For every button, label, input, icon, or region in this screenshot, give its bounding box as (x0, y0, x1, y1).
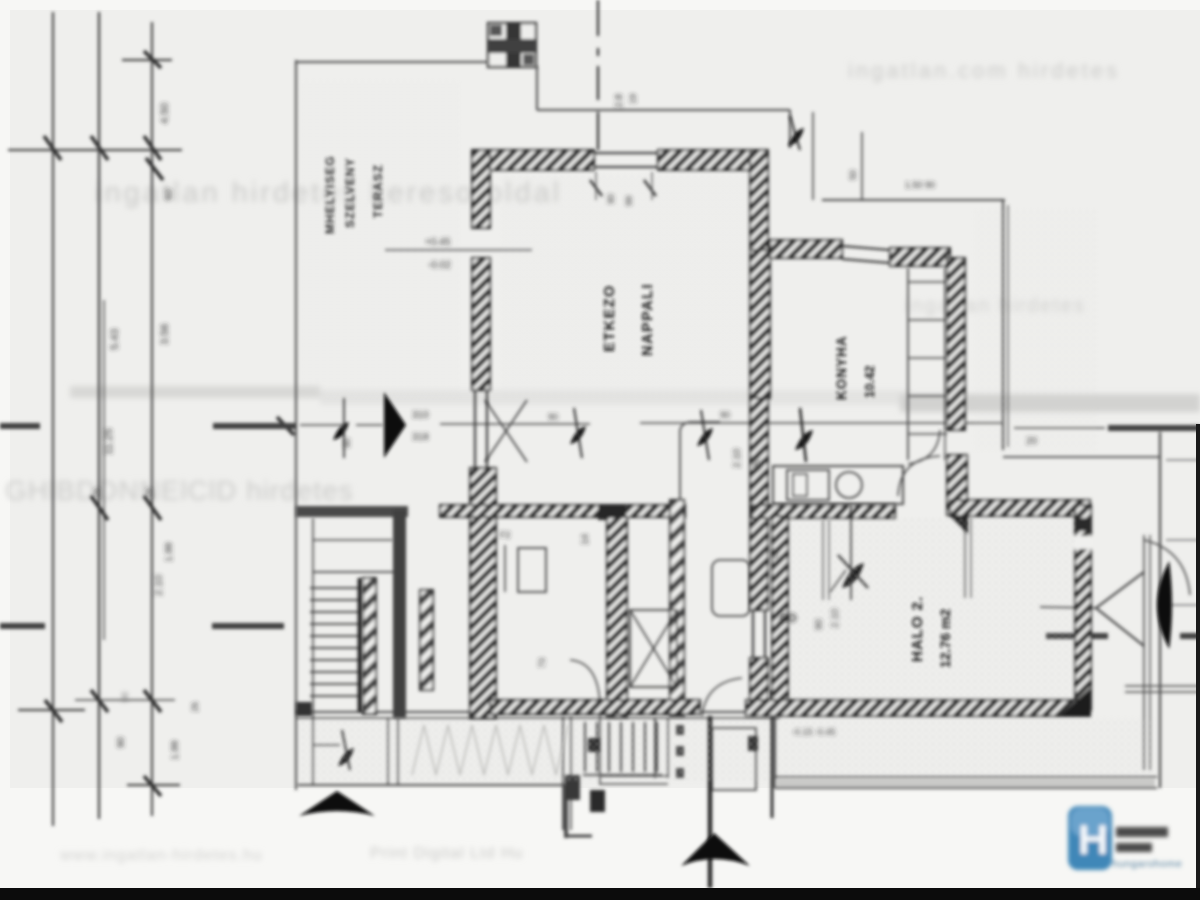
svg-text:12.76 m2: 12.76 m2 (937, 609, 953, 668)
svg-text:11.25: 11.25 (103, 428, 115, 455)
svg-text:19: 19 (628, 94, 638, 104)
svg-text:90: 90 (342, 438, 352, 448)
svg-text:1.99: 1.99 (170, 740, 181, 760)
svg-text:90: 90 (120, 692, 130, 702)
svg-text:ingatlan.com hirdetes: ingatlan.com hirdetes (848, 58, 1120, 83)
svg-text:14: 14 (580, 533, 591, 545)
svg-text:GHlBDDNNElClD hirdetes: GHlBDDNNElClD hirdetes (5, 475, 354, 506)
svg-text:26: 26 (144, 488, 154, 498)
svg-text:60: 60 (164, 188, 175, 200)
svg-text:TERASZ: TERASZ (371, 164, 385, 218)
svg-text:14: 14 (770, 550, 780, 560)
svg-text:2.10: 2.10 (153, 575, 165, 596)
svg-text:KONYHA: KONYHA (834, 335, 849, 400)
svg-text:90: 90 (548, 412, 558, 422)
svg-text:1.50 90: 1.50 90 (905, 180, 935, 190)
svg-text:F2: F2 (500, 530, 511, 540)
svg-text:HALO 2.: HALO 2. (909, 596, 926, 662)
svg-text:10.42: 10.42 (862, 365, 877, 398)
svg-text:Print Digital Ltd Hu: Print Digital Ltd Hu (370, 845, 523, 862)
svg-text:2.10: 2.10 (732, 448, 743, 468)
svg-text:3.56: 3.56 (159, 324, 171, 345)
svg-text:90: 90 (752, 458, 763, 470)
svg-text:73: 73 (537, 658, 547, 668)
svg-text:ETKEZO: ETKEZO (602, 284, 618, 352)
svg-text:26: 26 (190, 702, 200, 712)
svg-text:90: 90 (720, 410, 730, 420)
svg-text:26: 26 (92, 488, 102, 498)
svg-text:90: 90 (116, 736, 127, 748)
svg-text:4.50: 4.50 (159, 103, 171, 124)
svg-text:MHELYISEG: MHELYISEG (323, 155, 337, 234)
svg-text:www.ingatlan-hirdetes.hu: www.ingatlan-hirdetes.hu (59, 847, 263, 864)
svg-text:1.99: 1.99 (164, 542, 175, 562)
svg-text:2.8: 2.8 (614, 94, 625, 108)
svg-text:50: 50 (848, 170, 858, 180)
svg-text:318: 318 (412, 432, 429, 443)
svg-text:hungarohome: hungarohome (1112, 858, 1182, 870)
svg-text:NAPPALI: NAPPALI (640, 283, 656, 356)
svg-text:310: 310 (412, 410, 429, 421)
svg-text:SZELVENY: SZELVENY (343, 158, 357, 228)
svg-text:5.43: 5.43 (109, 329, 121, 350)
svg-text:H: H (1078, 816, 1108, 863)
